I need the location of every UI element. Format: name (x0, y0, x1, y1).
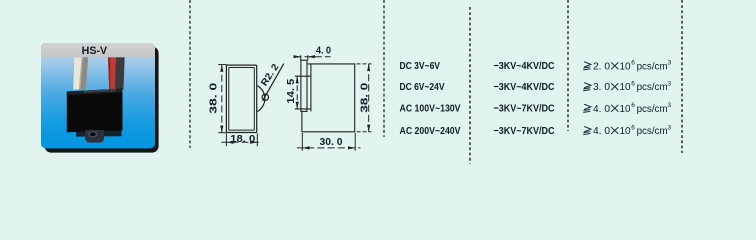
svg-text:−3KV~4KV/DC: −3KV~4KV/DC (494, 60, 555, 72)
body outline (302, 64, 355, 132)
svg-text:6: 6 (631, 102, 635, 109)
dim 38.0 front (218, 65, 226, 133)
mounting tab (85, 130, 104, 143)
svg-text:HS-V: HS-V (82, 45, 108, 57)
leader line R2.2 (263, 64, 284, 101)
label band (41, 43, 155, 57)
wire dark (115, 57, 125, 89)
svg-text:4. 0: 4. 0 (316, 45, 331, 57)
svg-text:pcs/cm: pcs/cm (637, 126, 668, 137)
svg-text:6: 6 (631, 80, 635, 87)
dashed separator 2 (383, 0, 385, 137)
dashed separator 5 (681, 0, 683, 153)
ear bottom line (295, 108, 311, 110)
svg-text:10: 10 (620, 82, 631, 93)
svg-text:4. 0: 4. 0 (593, 126, 610, 137)
svg-text:AC 100V~130V: AC 100V~130V (400, 103, 461, 115)
svg-text:3: 3 (668, 124, 672, 131)
svg-text:38. 0: 38. 0 (358, 83, 370, 113)
svg-text:30. 0: 30. 0 (320, 136, 343, 148)
svg-text:10: 10 (620, 126, 631, 137)
svg-text:3: 3 (668, 80, 672, 87)
svg-text:6: 6 (631, 124, 635, 131)
svg-text:−3KV~7KV/DC: −3KV~7KV/DC (494, 103, 555, 115)
svg-text:pcs/cm: pcs/cm (637, 82, 668, 93)
svg-text:10: 10 (620, 104, 631, 115)
body shadow on blue (76, 130, 122, 137)
svg-text:2. 0: 2. 0 (593, 61, 610, 72)
mounting ear arc (257, 86, 265, 112)
svg-text:10: 10 (620, 61, 631, 72)
front inner rect (229, 68, 255, 131)
photo card shadow/border (45, 47, 159, 153)
svg-text:38. 0: 38. 0 (208, 83, 220, 114)
svg-text:pcs/cm: pcs/cm (637, 104, 668, 115)
ear hole circle (262, 94, 268, 100)
dashed separator 3 (469, 7, 471, 164)
col3 row1 (583, 60, 671, 73)
wire gray (80, 57, 88, 89)
svg-text:14. 5: 14. 5 (285, 79, 297, 104)
wire white (73, 57, 83, 89)
dim 38.0 side (357, 64, 372, 132)
photo card body (41, 43, 155, 148)
svg-text:−3KV~4KV/DC: −3KV~4KV/DC (494, 81, 555, 93)
svg-text:3: 3 (668, 60, 672, 67)
dim 4.0 (294, 55, 330, 60)
svg-text:18. 0: 18. 0 (230, 133, 255, 145)
switch body (67, 89, 123, 133)
dashed separator 4 (567, 0, 569, 131)
svg-text:3: 3 (668, 102, 672, 109)
svg-text:3. 0: 3. 0 (593, 82, 610, 93)
dim 18.0 front (221, 133, 262, 146)
flange bar (301, 60, 307, 111)
dashed separator 1 (189, 0, 191, 148)
col3 row2 (583, 80, 671, 93)
svg-text:6: 6 (631, 60, 635, 67)
svg-text:4. 0: 4. 0 (593, 104, 610, 115)
dim 14.5 (296, 76, 298, 109)
ear top line (295, 75, 311, 77)
svg-text:R2. 2: R2. 2 (259, 62, 281, 88)
svg-text:DC 6V~24V: DC 6V~24V (400, 81, 445, 93)
front outer rect (226, 65, 256, 132)
svg-text:pcs/cm: pcs/cm (637, 61, 668, 72)
wire red (108, 57, 116, 89)
body front face line (310, 64, 312, 112)
col3 row3 (583, 102, 671, 115)
svg-text:AC 200V~240V: AC 200V~240V (400, 125, 461, 137)
svg-text:−3KV~7KV/DC: −3KV~7KV/DC (494, 125, 555, 137)
dim 30.0 (297, 133, 361, 151)
svg-text:DC 3V~6V: DC 3V~6V (400, 60, 441, 72)
col3 row4 (583, 124, 671, 137)
